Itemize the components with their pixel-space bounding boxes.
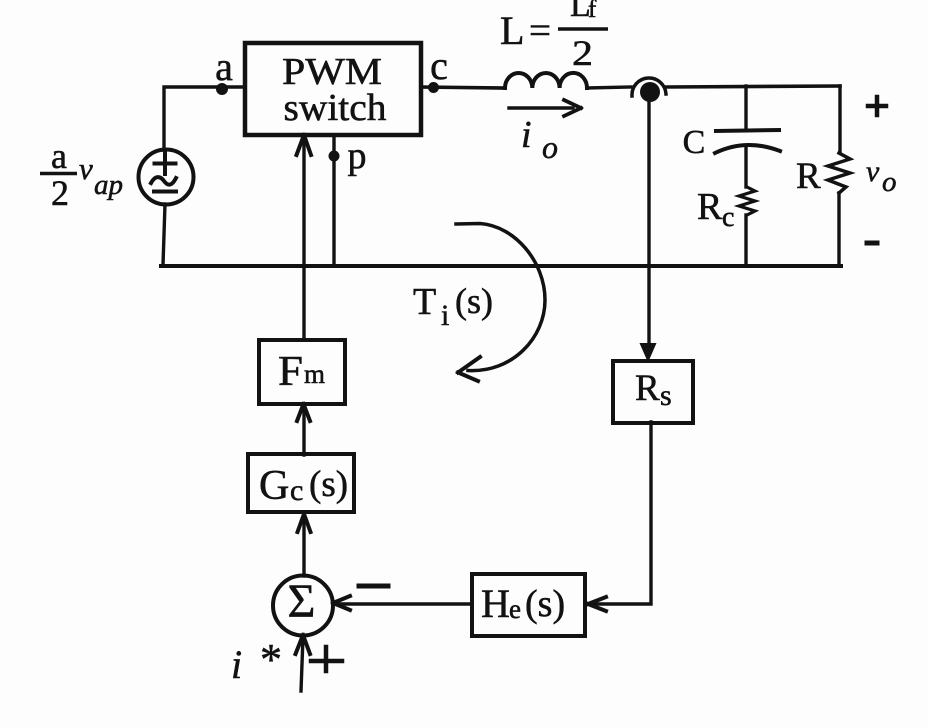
svg-text:o: o (882, 166, 897, 198)
svg-text:i: i (441, 299, 449, 332)
svg-text:i: i (231, 642, 242, 687)
svg-text:p: p (348, 135, 367, 177)
svg-text:R: R (697, 186, 723, 228)
svg-text:*: * (260, 635, 282, 684)
svg-text:a: a (51, 136, 67, 176)
svg-text:(s): (s) (309, 464, 348, 505)
svg-text:s: s (660, 379, 672, 412)
svg-text:H: H (481, 581, 510, 626)
svg-text:c: c (722, 202, 734, 233)
svg-text:c: c (290, 474, 303, 507)
svg-text:R: R (635, 368, 660, 409)
svg-text:2: 2 (572, 33, 593, 73)
svg-text:(s): (s) (525, 583, 565, 625)
svg-text:C: C (683, 124, 706, 161)
svg-text:F: F (278, 349, 303, 395)
svg-text:ap: ap (94, 169, 123, 201)
svg-text:m: m (304, 359, 325, 389)
svg-text:switch: switch (284, 87, 387, 129)
svg-text:f: f (588, 0, 597, 23)
svg-text:i: i (521, 114, 532, 156)
svg-text:2: 2 (51, 173, 69, 213)
svg-text:c: c (430, 43, 448, 88)
svg-text:G: G (259, 463, 289, 509)
svg-text:o: o (542, 129, 558, 165)
svg-text:Σ: Σ (288, 575, 316, 628)
svg-text:v: v (79, 151, 93, 186)
svg-text:T: T (413, 281, 436, 323)
svg-text:=: = (529, 10, 551, 52)
svg-text:L: L (500, 8, 524, 53)
svg-text:a: a (215, 44, 233, 89)
svg-text:(s): (s) (455, 281, 493, 321)
svg-text:e: e (509, 594, 521, 624)
svg-text:v: v (866, 155, 880, 188)
svg-text:R: R (796, 156, 821, 197)
